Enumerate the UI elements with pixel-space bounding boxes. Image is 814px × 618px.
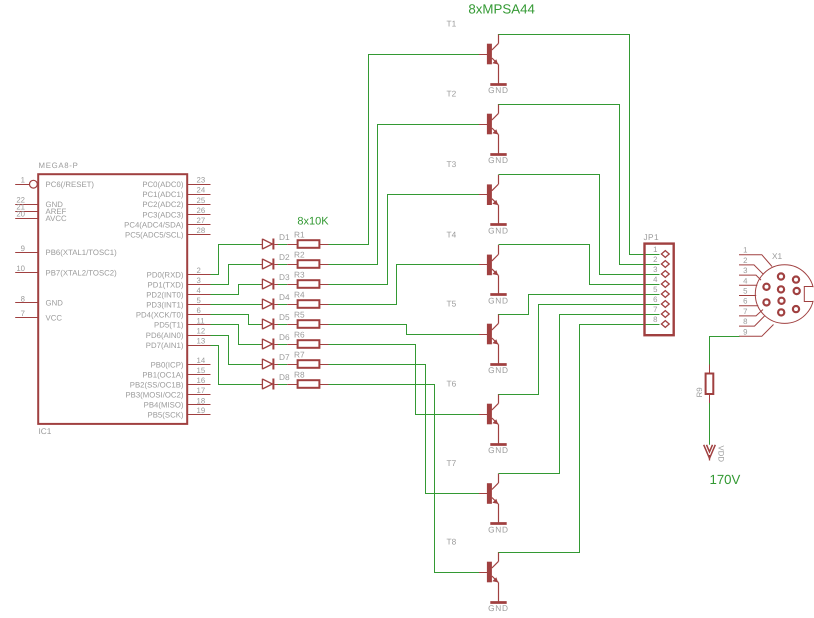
IC1 pin 13 PD7(AIN1) — [146, 337, 211, 350]
svg-text:26: 26 — [197, 206, 206, 215]
transistor T7 MPSA44 — [479, 474, 499, 524]
svg-text:17: 17 — [197, 386, 206, 395]
ground symbol of T4 — [488, 295, 509, 306]
svg-text:PB3(MOSI/OC2): PB3(MOSI/OC2) — [125, 391, 183, 400]
X1 pin 1 lead — [739, 246, 772, 267]
svg-text:1: 1 — [653, 245, 657, 254]
X1 contact 6 — [763, 299, 769, 305]
X1 pin 9 lead — [739, 325, 774, 337]
svg-text:5: 5 — [653, 285, 658, 294]
svg-text:MEGA8-P: MEGA8-P — [39, 161, 79, 170]
connector JP1 body — [645, 244, 674, 336]
wire T3 collector to JP1 pin 3 — [499, 175, 660, 275]
svg-text:2: 2 — [197, 266, 201, 275]
svg-text:PC5(ADC5/SCL): PC5(ADC5/SCL) — [125, 230, 184, 239]
wire PD2 to diode row — [211, 285, 261, 295]
wire R4 to T4 base — [329, 265, 480, 305]
IC1 pin 5 PD3(INT1) — [146, 296, 210, 309]
resistor R4 — [287, 300, 328, 308]
resistor R2 — [287, 260, 328, 268]
IC1 pin 26 PC3(ADC3) — [142, 206, 210, 219]
svg-text:T7: T7 — [447, 458, 457, 468]
svg-text:T5: T5 — [447, 299, 457, 309]
supply symbol VDD — [704, 445, 716, 461]
wire D3 to R3 — [278, 284, 287, 286]
svg-text:8: 8 — [653, 315, 657, 324]
wire D5 to R5 — [278, 324, 287, 326]
svg-text:PC1(ADC1): PC1(ADC1) — [142, 190, 184, 199]
svg-text:R7: R7 — [294, 349, 305, 359]
svg-text:PB0(ICP): PB0(ICP) — [151, 360, 184, 369]
svg-text:R5: R5 — [294, 309, 305, 319]
svg-text:R2: R2 — [294, 249, 305, 259]
JP1 pin 6 — [653, 295, 669, 307]
ground symbol of T7 — [488, 524, 509, 535]
resistor R7 — [287, 360, 328, 368]
IC1 pin 11 PD5(T1) — [154, 316, 210, 329]
JP1 pin 3 — [653, 265, 669, 277]
wire R2 to T2 base — [329, 125, 480, 265]
svg-text:7: 7 — [21, 309, 25, 318]
IC1 pin 20 AVCC — [15, 210, 67, 223]
resistor R5 — [287, 320, 328, 328]
IC1 pin 14 PB0(ICP) — [151, 356, 211, 369]
X1 contact 8 — [778, 309, 784, 315]
JP1 pin 4 — [653, 275, 669, 287]
ground symbol of T6 — [488, 445, 509, 455]
svg-text:6: 6 — [743, 297, 747, 306]
svg-text:IC1: IC1 — [39, 426, 52, 436]
svg-text:7: 7 — [653, 305, 657, 314]
ground symbol of T5 — [488, 365, 509, 375]
svg-text:AVCC: AVCC — [46, 214, 67, 223]
transistor T5 MPSA44 — [479, 314, 499, 364]
X1 contact 7 — [778, 298, 784, 304]
svg-text:16: 16 — [197, 376, 206, 385]
svg-text:T3: T3 — [447, 159, 457, 169]
svg-text:6: 6 — [653, 295, 657, 304]
svg-text:D5: D5 — [279, 312, 290, 322]
wire PD5 to diode row — [211, 325, 261, 345]
wire PD3 to diode row — [211, 304, 261, 306]
transistor T2 MPSA44 — [479, 104, 499, 154]
svg-text:D1: D1 — [279, 232, 290, 242]
wire T6 collector to JP1 pin 6 — [499, 305, 660, 395]
wire X1 pin 9 to R9 — [710, 337, 740, 365]
JP1 pin 2 — [653, 255, 669, 267]
resistor R9 — [706, 365, 714, 404]
wire PD4 to diode row — [211, 315, 261, 325]
svg-text:GND: GND — [488, 296, 509, 306]
svg-text:PB4(MISO): PB4(MISO) — [144, 401, 184, 410]
IC1 pin 24 PC1(ADC1) — [142, 186, 210, 199]
svg-text:20: 20 — [16, 210, 25, 219]
svg-text:R9: R9 — [695, 387, 704, 397]
resistor R1 — [287, 240, 328, 248]
svg-text:2: 2 — [743, 256, 747, 265]
diode D1 — [260, 239, 278, 250]
svg-text:PB1(OC1A): PB1(OC1A) — [142, 370, 184, 379]
diode D6 — [260, 339, 278, 350]
JP1 pin 5 — [653, 285, 669, 297]
svg-text:D7: D7 — [279, 352, 290, 362]
svg-text:11: 11 — [197, 316, 205, 325]
svg-text:3: 3 — [743, 266, 747, 275]
svg-text:GND: GND — [488, 445, 509, 455]
X1 pin 8 lead — [739, 316, 765, 326]
IC1 pin 15 PB1(OC1A) — [142, 366, 210, 379]
svg-text:8: 8 — [21, 294, 25, 303]
transistor T6 MPSA44 — [479, 394, 499, 444]
IC1 pin 23 PC0(ADC0) — [142, 176, 210, 189]
svg-text:6: 6 — [197, 306, 201, 315]
wire D1 to R1 — [278, 244, 287, 246]
svg-text:23: 23 — [197, 176, 206, 185]
svg-text:9: 9 — [21, 244, 25, 253]
svg-text:D3: D3 — [279, 272, 290, 282]
JP1 pin 1 — [653, 245, 669, 257]
wire R9 to VDD — [709, 403, 711, 445]
svg-text:T6: T6 — [447, 379, 457, 389]
svg-text:PB2(SS/OC1B): PB2(SS/OC1B) — [130, 381, 184, 390]
svg-text:R8: R8 — [294, 369, 305, 379]
JP1 pin 7 — [653, 305, 669, 317]
X1 pin 2 lead — [739, 256, 764, 275]
svg-text:R1: R1 — [294, 229, 305, 239]
svg-text:VDD: VDD — [717, 446, 726, 463]
wire R5 to T5 base — [329, 325, 480, 335]
IC1 pin 28 PC5(ADC5/SCL) — [125, 226, 211, 239]
wire T4 collector to JP1 pin 4 — [499, 245, 660, 285]
svg-text:3: 3 — [197, 276, 201, 285]
ground symbol of T3 — [488, 225, 509, 236]
svg-text:PD7(AIN1): PD7(AIN1) — [146, 341, 184, 350]
svg-text:T2: T2 — [447, 89, 457, 99]
svg-text:3: 3 — [653, 265, 657, 274]
IC1 pin 2 PD0(RXD) — [147, 266, 211, 279]
svg-text:4: 4 — [653, 275, 658, 284]
wire PD1 to diode row — [211, 265, 261, 285]
wire R8 to T8 base — [329, 385, 480, 573]
svg-text:T4: T4 — [447, 229, 457, 239]
svg-text:GND: GND — [488, 365, 509, 375]
svg-text:D6: D6 — [279, 332, 290, 342]
svg-text:PD4(XCK/T0): PD4(XCK/T0) — [136, 311, 184, 320]
svg-text:PD3(INT1): PD3(INT1) — [146, 301, 184, 310]
transistor T4 MPSA44 — [479, 245, 499, 295]
svg-text:25: 25 — [197, 196, 206, 205]
IC1 pin 16 PB2(SS/OC1B) — [130, 376, 211, 389]
svg-text:7: 7 — [743, 307, 747, 316]
svg-text:5: 5 — [197, 296, 202, 305]
IC1 pin 7 VCC — [15, 309, 62, 322]
diode D8 — [260, 379, 278, 390]
IC1 pin 1 PC6(/RESET) — [15, 176, 94, 189]
IC U1 MEGA8-P body — [38, 174, 187, 424]
svg-text:18: 18 — [197, 396, 206, 405]
IC1 pin 18 PB4(MISO) — [144, 396, 211, 409]
IC1 pin 4 PD2(INT0) — [146, 286, 210, 299]
svg-text:1: 1 — [21, 176, 25, 185]
svg-text:12: 12 — [197, 326, 206, 335]
wire PD7 to diode row — [211, 346, 261, 385]
resistor R3 — [287, 280, 328, 288]
resistor R6 — [287, 340, 328, 348]
svg-text:R4: R4 — [294, 289, 305, 299]
svg-text:PB7(XTAL2/TOSC2): PB7(XTAL2/TOSC2) — [46, 268, 118, 277]
svg-text:GND: GND — [488, 524, 509, 534]
IC1 pin 25 PC2(ADC2) — [142, 196, 210, 209]
svg-text:4: 4 — [197, 286, 202, 295]
svg-text:PC3(ADC3): PC3(ADC3) — [142, 210, 184, 219]
X1 pin 4 lead — [739, 276, 757, 285]
svg-text:15: 15 — [197, 366, 206, 375]
svg-text:PC4(ADC4/SDA): PC4(ADC4/SDA) — [124, 220, 184, 229]
svg-text:PD5(T1): PD5(T1) — [154, 321, 184, 330]
X1 contact 3 — [763, 284, 769, 290]
wire R1 to T1 base — [329, 55, 480, 245]
resistor R8 — [287, 380, 328, 388]
wire D8 to R8 — [278, 384, 287, 386]
svg-text:8x10K: 8x10K — [297, 215, 329, 227]
svg-text:28: 28 — [197, 226, 206, 235]
transistor T3 MPSA44 — [479, 175, 499, 225]
wire T8 collector to JP1 pin 8 — [499, 325, 660, 553]
connector X1 body — [755, 265, 814, 324]
svg-text:170V: 170V — [710, 472, 741, 487]
svg-text:GND: GND — [488, 603, 509, 613]
svg-text:X1: X1 — [772, 251, 783, 261]
svg-text:PD0(RXD): PD0(RXD) — [147, 270, 184, 279]
svg-text:D2: D2 — [279, 252, 290, 262]
svg-text:PD6(AIN0): PD6(AIN0) — [146, 331, 184, 340]
X1 pin 7 lead — [739, 307, 763, 316]
svg-text:1: 1 — [743, 246, 747, 255]
X1 contact 2 — [793, 277, 799, 283]
svg-text:R6: R6 — [294, 329, 305, 339]
svg-text:8xMPSA44: 8xMPSA44 — [468, 1, 535, 16]
IC1 pin 21 AREF — [15, 203, 66, 216]
svg-text:9: 9 — [743, 327, 747, 336]
wire T5 collector to JP1 pin 5 — [499, 295, 660, 315]
X1 contact 5 — [794, 288, 800, 294]
svg-text:JP1: JP1 — [644, 232, 660, 242]
IC1 pin 3 PD1(TXD) — [148, 276, 211, 289]
svg-text:GND: GND — [46, 299, 64, 308]
svg-text:GND: GND — [488, 155, 509, 165]
svg-text:GND: GND — [488, 226, 509, 236]
svg-text:D4: D4 — [279, 292, 290, 302]
X1 pin 6 lead — [739, 297, 758, 306]
wire T2 collector to JP1 pin 2 — [499, 105, 660, 265]
svg-text:PD2(INT0): PD2(INT0) — [146, 291, 184, 300]
X1 contact 1 — [778, 273, 784, 279]
svg-text:T1: T1 — [447, 19, 457, 29]
X1 contact 4 — [778, 286, 784, 292]
svg-text:4: 4 — [743, 276, 748, 285]
svg-text:PC0(ADC0): PC0(ADC0) — [142, 180, 184, 189]
svg-text:14: 14 — [197, 356, 206, 365]
IC1 pin 17 PB3(MOSI/OC2) — [125, 386, 210, 399]
IC1 pin 9 PB6(XTAL1/TOSC1) — [15, 244, 117, 257]
IC1 pin 10 PB7(XTAL2/TOSC2) — [15, 264, 117, 277]
wire R3 to T3 base — [329, 195, 480, 285]
svg-text:19: 19 — [197, 406, 206, 415]
wire PD6 to diode row — [211, 336, 261, 365]
X1 pin 5 lead — [739, 287, 756, 296]
IC1 pin 19 PB5(SCK) — [148, 406, 211, 419]
diode D2 — [260, 259, 278, 270]
IC1 pin 22 GND — [15, 196, 63, 209]
ground symbol of T1 — [488, 85, 509, 95]
svg-text:10: 10 — [16, 264, 25, 273]
wire D6 to R6 — [278, 344, 287, 346]
wire PD0 to diode row — [211, 245, 261, 275]
diode D7 — [260, 359, 278, 370]
svg-text:27: 27 — [197, 216, 206, 225]
wire D4 to R4 — [278, 304, 287, 306]
svg-text:PB5(SCK): PB5(SCK) — [148, 410, 184, 419]
diode D5 — [260, 319, 278, 330]
IC1 pin 8 GND — [15, 294, 63, 307]
transistor T1 MPSA44 — [479, 34, 499, 84]
svg-text:D8: D8 — [279, 372, 290, 382]
wire D2 to R2 — [278, 264, 287, 266]
X1 contact 9 — [793, 306, 799, 312]
ground symbol of T2 — [488, 155, 509, 165]
X1 pin 3 lead — [739, 266, 761, 280]
svg-text:PD1(TXD): PD1(TXD) — [148, 280, 184, 289]
svg-text:PC6(/RESET): PC6(/RESET) — [46, 180, 95, 189]
svg-text:PC2(ADC2): PC2(ADC2) — [142, 200, 184, 209]
wire R7 to T7 base — [329, 365, 480, 494]
svg-text:T8: T8 — [447, 537, 457, 547]
ground symbol of T8 — [488, 603, 509, 613]
svg-text:2: 2 — [653, 255, 657, 264]
svg-text:24: 24 — [197, 186, 206, 195]
wire T7 collector to JP1 pin 7 — [499, 315, 660, 474]
IC1 pin 12 PD6(AIN0) — [146, 326, 211, 339]
svg-text:GND: GND — [488, 85, 509, 95]
diode D4 — [260, 299, 278, 310]
diode D3 — [260, 279, 278, 290]
transistor T8 MPSA44 — [479, 552, 499, 602]
wire T1 collector to JP1 pin 1 — [499, 35, 660, 255]
JP1 pin 8 — [653, 315, 669, 327]
svg-text:8: 8 — [743, 317, 747, 326]
IC1 pin 6 PD4(XCK/T0) — [136, 306, 211, 319]
svg-text:VCC: VCC — [46, 314, 63, 323]
wire R6 to T6 base — [329, 345, 480, 415]
svg-text:PB6(XTAL1/TOSC1): PB6(XTAL1/TOSC1) — [46, 248, 118, 257]
svg-text:R3: R3 — [294, 269, 305, 279]
svg-text:5: 5 — [743, 287, 748, 296]
svg-text:13: 13 — [197, 337, 206, 346]
wire D7 to R7 — [278, 364, 287, 366]
IC1 pin 27 PC4(ADC4/SDA) — [124, 216, 210, 229]
